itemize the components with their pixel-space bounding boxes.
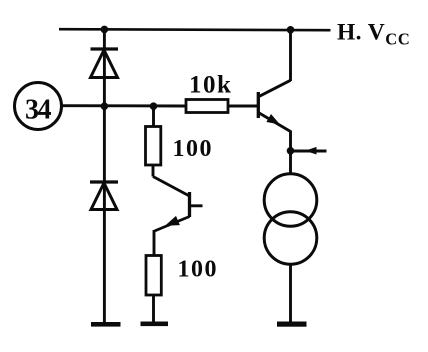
svg-text:10k: 10k <box>189 72 232 99</box>
svg-text:H. VCC: H. VCC <box>337 20 411 49</box>
svg-text:34: 34 <box>25 95 52 126</box>
svg-text:100: 100 <box>178 257 219 283</box>
svg-text:100: 100 <box>173 136 214 162</box>
